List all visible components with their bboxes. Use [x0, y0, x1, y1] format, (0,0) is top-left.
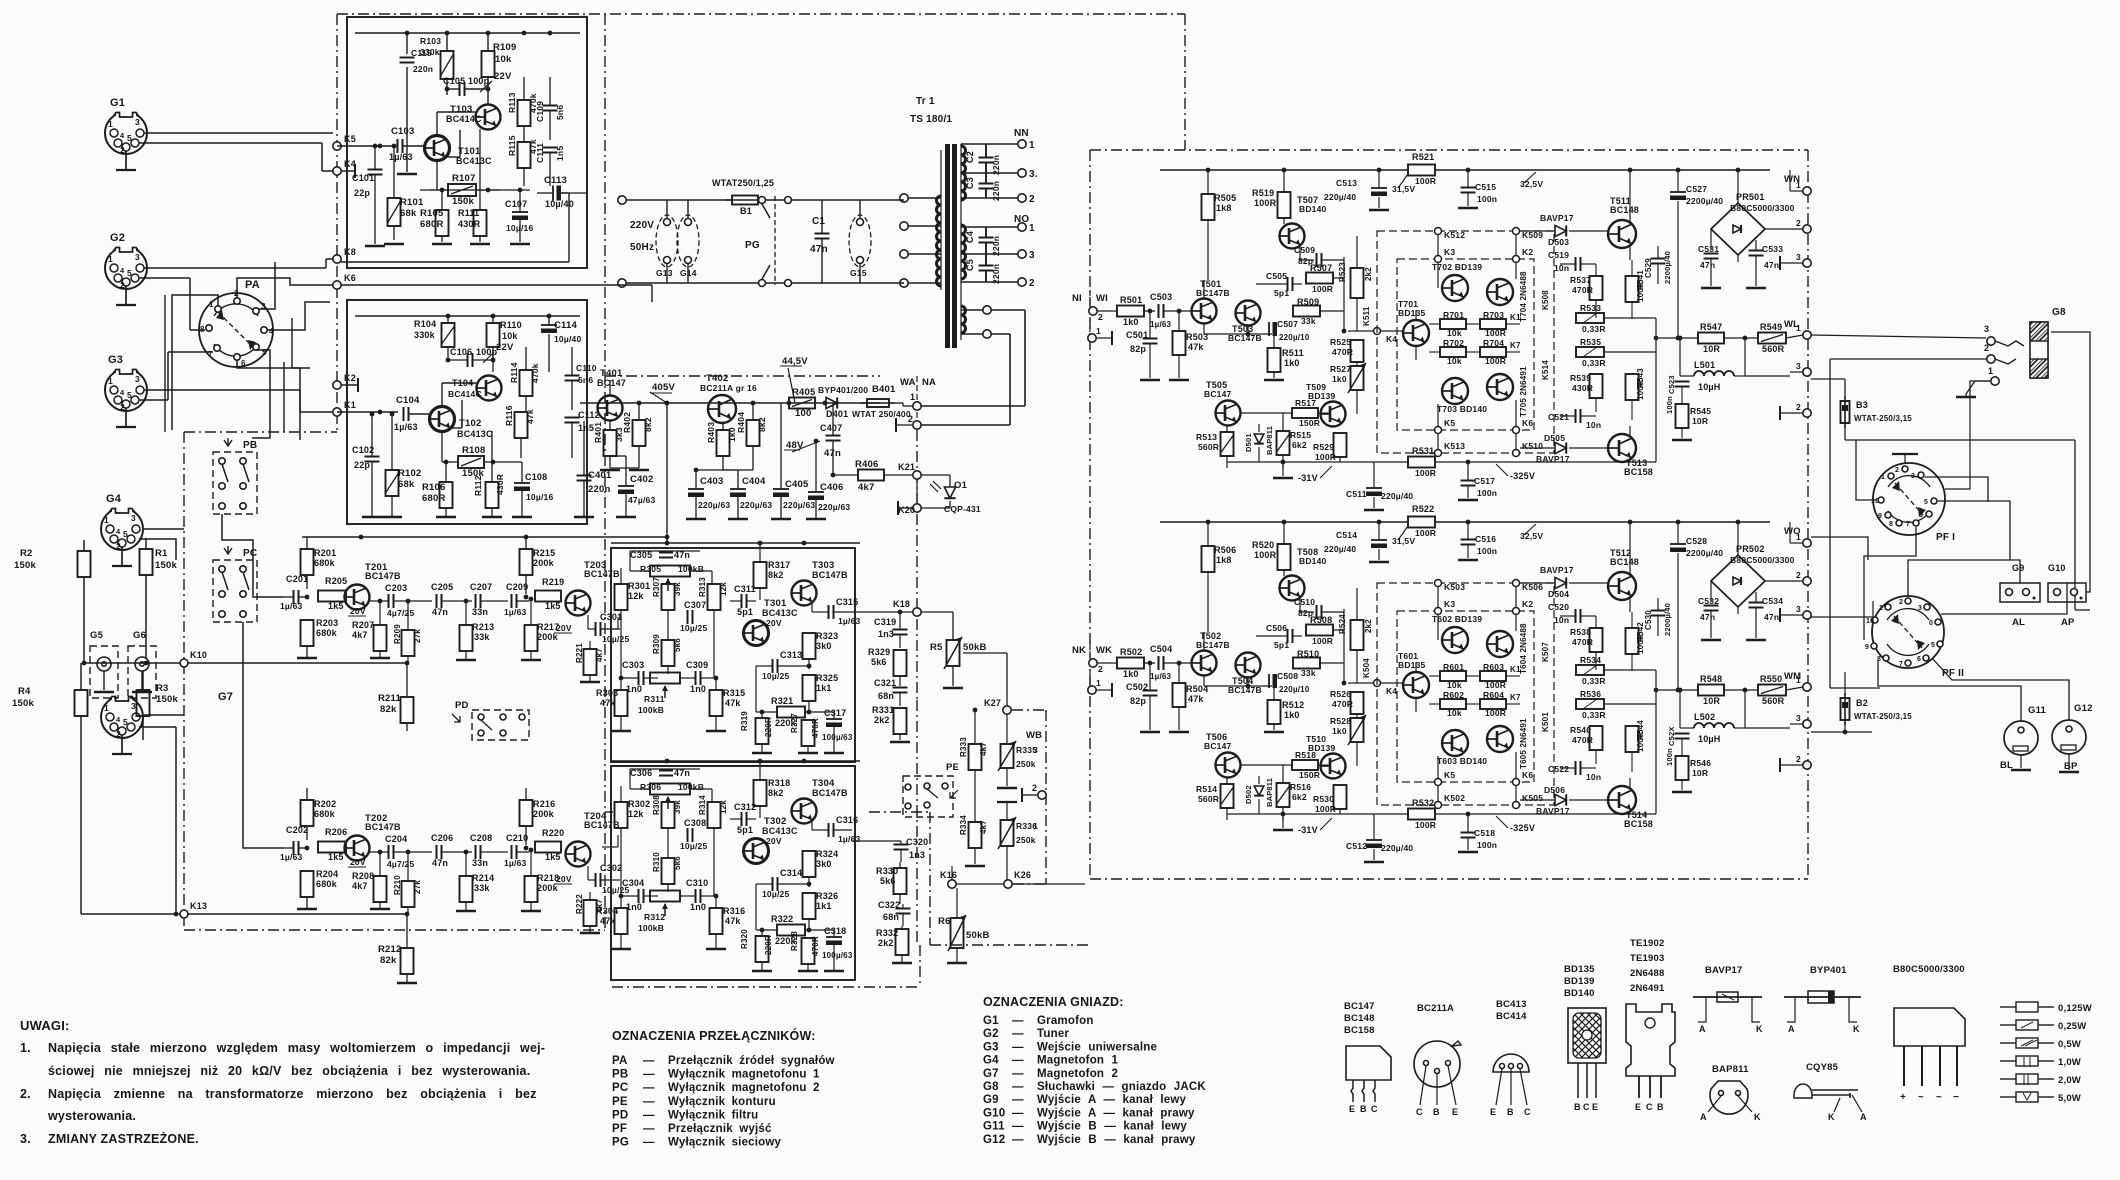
wire diff emitters: [1203, 676, 1205, 686]
capacitor C506 5p1: [1287, 629, 1289, 643]
svg-text:K503: K503: [1444, 582, 1465, 592]
wire K10 rail: [84, 662, 407, 664]
svg-text:G13: G13: [656, 268, 673, 278]
svg-text:5: 5: [127, 390, 132, 400]
svg-text:82p: 82p: [1130, 344, 1146, 354]
svg-text:G12: G12: [2074, 703, 2093, 714]
resistor R314: [708, 802, 721, 828]
wire top rail: [1160, 169, 1408, 171]
resistor R505 1k8: [1207, 170, 1209, 194]
svg-text:—: —: [1012, 1068, 1024, 1080]
svg-text:22p: 22p: [354, 188, 370, 198]
svg-text:NI: NI: [1072, 293, 1082, 304]
resistor R539 430R: [1590, 374, 1603, 398]
svg-text:K4: K4: [1386, 686, 1397, 696]
wire PA3 to K8 line: [259, 262, 275, 309]
wire T101 out to K8: [561, 192, 569, 194]
resistor R526 470R: [1351, 692, 1364, 714]
capacitor C319 1n3: [893, 629, 908, 631]
node K502: [1435, 802, 1442, 809]
svg-text:200k: 200k: [537, 632, 559, 642]
resistor R204: [301, 871, 314, 897]
svg-text:10k: 10k: [1447, 328, 1462, 338]
node jack contact 2: [1987, 355, 1995, 363]
svg-text:3: 3: [1796, 604, 1801, 614]
node PFII pin 3: [1924, 604, 1930, 610]
resistor R604 100R: [1480, 699, 1506, 709]
svg-text:A: A: [1699, 1024, 1706, 1034]
svg-text:BC147: BC147: [597, 378, 626, 388]
svg-text:1µ/63: 1µ/63: [838, 834, 861, 844]
resistor R537 470R: [1590, 276, 1603, 300]
svg-text:50Hz: 50Hz: [630, 242, 654, 253]
svg-text:B: B: [1433, 1107, 1440, 1117]
capacitor C52X 100n: [1681, 690, 1683, 732]
svg-text:C201: C201: [286, 574, 308, 584]
svg-text:WTAT250/1,25: WTAT250/1,25: [712, 178, 774, 188]
svg-text:R404: R404: [736, 412, 746, 433]
svg-text:C106: C106: [450, 347, 472, 357]
capacitor C527 2200µ/40: [1677, 170, 1679, 192]
svg-text:R508: R508: [1310, 615, 1332, 625]
resistor R112 430R: [486, 482, 499, 508]
svg-text:2: 2: [1796, 402, 1801, 412]
resistor R511 1k0: [1273, 336, 1275, 348]
svg-text:C406: C406: [820, 482, 844, 493]
svg-text:G12: G12: [983, 1134, 1005, 1146]
svg-text:4: 4: [269, 327, 274, 336]
svg-text:—: —: [643, 1055, 655, 1067]
svg-text:27k: 27k: [413, 880, 422, 894]
node PFII pin 6: [1923, 655, 1929, 661]
svg-text:R305: R305: [640, 564, 661, 574]
node PFII pin 7: [1905, 660, 1911, 666]
svg-text:100n: 100n: [1665, 748, 1674, 766]
node K13: [180, 910, 188, 918]
svg-text:31,5V: 31,5V: [1392, 536, 1415, 546]
svg-text:10µ/16: 10µ/16: [526, 492, 553, 502]
node PFII pin 2: [1905, 598, 1911, 604]
svg-text:C319: C319: [874, 617, 896, 627]
svg-text:R201: R201: [314, 548, 336, 558]
svg-text:0,125W: 0,125W: [2058, 1003, 2092, 1014]
svg-text:E: E: [1349, 1104, 1355, 1114]
svg-text:D503: D503: [1548, 237, 1569, 247]
box K-matrix inner: [1397, 611, 1534, 782]
transistor T703 BD140: [1442, 378, 1468, 404]
svg-text:1µ/63: 1µ/63: [389, 152, 413, 162]
svg-text:B80C5000/3300: B80C5000/3300: [1730, 555, 1795, 565]
svg-text:PG: PG: [745, 240, 760, 251]
svg-text:3: 3: [1796, 713, 1801, 723]
svg-text:R533: R533: [1580, 303, 1601, 313]
node PA pin 3: [253, 308, 259, 314]
svg-text:PB: PB: [243, 440, 257, 451]
svg-text:G14: G14: [680, 268, 697, 278]
svg-text:R103: R103: [420, 36, 441, 46]
svg-text:-31V: -31V: [1298, 825, 1318, 835]
svg-text:2: 2: [1029, 194, 1035, 205]
svg-text:K4: K4: [1386, 334, 1397, 344]
svg-text:R4: R4: [18, 686, 31, 697]
svg-text:R324: R324: [816, 849, 838, 859]
svg-text:R116: R116: [504, 405, 514, 426]
svg-text:6: 6: [1917, 656, 1921, 663]
svg-text:50kB: 50kB: [966, 930, 990, 941]
node transformer primary tap: [900, 194, 908, 202]
transistor T704 2N6488: [1487, 279, 1513, 305]
svg-text:R309: R309: [652, 634, 661, 654]
node PA pin 1: [215, 306, 221, 312]
svg-text:K13: K13: [190, 901, 207, 911]
svg-text:G4: G4: [106, 493, 122, 505]
transistor T402 BC211A: [708, 395, 736, 423]
svg-text:B: B: [1574, 1102, 1581, 1112]
svg-text:-31V: -31V: [1298, 473, 1318, 483]
capacitor C505 5p1: [1287, 277, 1289, 291]
resistor R217: [525, 625, 538, 651]
svg-text:0,25W: 0,25W: [2058, 1021, 2086, 1032]
capacitor C313: [772, 659, 774, 673]
svg-text:7: 7: [1899, 661, 1903, 668]
potentiometer R306: [650, 784, 690, 795]
svg-text:BD140: BD140: [1299, 204, 1327, 214]
svg-text:C309: C309: [686, 660, 708, 670]
capacitor C514 220µ/40: [1378, 522, 1380, 540]
resistor R547 10R: [1698, 333, 1724, 344]
resistor R531 100R: [1408, 457, 1435, 468]
svg-text:150k: 150k: [14, 560, 36, 571]
svg-text:220V: 220V: [630, 220, 654, 231]
svg-text:R509: R509: [1297, 297, 1319, 307]
capacitor C402 47µ/63: [618, 485, 634, 487]
svg-text:1: 1: [104, 703, 109, 713]
capacitor C206: [436, 845, 438, 859]
svg-text:R329: R329: [868, 647, 890, 657]
svg-text:3: 3: [135, 252, 140, 262]
resistor R703 100R: [1480, 319, 1506, 329]
capacitor C406 220µ/63: [808, 491, 824, 493]
svg-text:33k: 33k: [474, 883, 490, 893]
svg-text:2: 2: [120, 402, 125, 412]
svg-text:BAVP17: BAVP17: [1540, 213, 1574, 223]
svg-text:R213: R213: [472, 622, 494, 632]
svg-text:100R: 100R: [1636, 732, 1645, 752]
ground jack: [1965, 394, 1967, 396]
svg-text:33n: 33n: [472, 607, 488, 617]
capacitor C534 47n: [1755, 592, 1757, 602]
node K1: [333, 408, 341, 416]
svg-text:2: 2: [1098, 312, 1103, 322]
svg-text:G11: G11: [983, 1121, 1005, 1133]
svg-text:100R: 100R: [1415, 468, 1436, 478]
svg-text:31,5V: 31,5V: [1392, 184, 1415, 194]
node K509: [1513, 228, 1520, 235]
svg-text:C527: C527: [1686, 184, 1707, 194]
wire T101 base: [337, 145, 393, 147]
transistor T303: [792, 581, 817, 606]
svg-text:R308: R308: [652, 795, 661, 815]
wire T701 c-e: [1415, 662, 1417, 672]
svg-text:82k: 82k: [380, 704, 397, 715]
svg-text:3: 3: [1918, 605, 1922, 612]
svg-text:100p: 100p: [468, 76, 490, 86]
svg-text:5p1: 5p1: [737, 825, 753, 835]
svg-text:0,5W: 0,5W: [2058, 1039, 2081, 1050]
svg-text:C515: C515: [1475, 182, 1496, 192]
svg-text:C307: C307: [684, 600, 706, 610]
svg-text:R601: R601: [1443, 662, 1464, 672]
resistor R201: [301, 549, 314, 575]
svg-text:2N6488: 2N6488: [1630, 968, 1664, 979]
svg-text:K26: K26: [1014, 870, 1031, 880]
node PFII pin 10: [1872, 617, 1878, 623]
resistor R215: [520, 549, 533, 575]
svg-text:150R: 150R: [1299, 418, 1320, 428]
svg-text:20V: 20V: [350, 606, 366, 616]
wire WM to B2: [1811, 695, 1845, 697]
node mains terminal L: [618, 196, 626, 204]
svg-text:B401: B401: [872, 384, 896, 395]
svg-text:G6: G6: [133, 630, 146, 641]
svg-text:R206: R206: [325, 827, 347, 837]
capacitor C318: [826, 936, 842, 938]
svg-text:C534: C534: [1762, 596, 1783, 606]
ground C115: [397, 173, 417, 176]
capacitor C301: [595, 622, 597, 636]
svg-text:Gramofon: Gramofon: [1037, 1015, 1094, 1027]
capacitor C112 1n5: [565, 417, 580, 419]
svg-text:—: —: [643, 1109, 655, 1121]
resistor R324: [803, 851, 816, 877]
svg-text:C518: C518: [1474, 828, 1495, 838]
transistor T513 BC158: [1608, 434, 1636, 462]
resistor R214: [460, 876, 473, 902]
connector G4: [101, 505, 143, 566]
capacitor C105 100p: [459, 82, 461, 96]
svg-text:C108: C108: [525, 472, 547, 482]
svg-text:150k: 150k: [12, 698, 34, 709]
svg-text:WA: WA: [900, 377, 916, 388]
diode D505 BAVP17: [1520, 447, 1554, 449]
transformer primary winding: [937, 196, 942, 286]
svg-text:R521: R521: [1412, 152, 1434, 162]
resistor R211 82k: [401, 697, 414, 723]
svg-text:R546: R546: [1690, 758, 1711, 768]
resistor R333 4k7: [974, 710, 976, 744]
node terminal 3: [1803, 368, 1811, 376]
svg-text:R320: R320: [740, 929, 749, 949]
wire dash-dot border power amp block: [1090, 149, 1808, 151]
svg-text:470R: 470R: [811, 936, 820, 956]
svg-text:1µ/63: 1µ/63: [838, 616, 861, 626]
capacitor C320 1n3: [894, 844, 909, 846]
svg-text:5: 5: [1931, 642, 1935, 649]
svg-text:220µ/63: 220µ/63: [698, 500, 730, 510]
svg-text:R702: R702: [1443, 338, 1464, 348]
resistor R216: [520, 800, 533, 826]
resistor R522 100R: [1408, 517, 1435, 528]
svg-text:K505: K505: [1522, 793, 1543, 803]
capacitor C515 100n: [1467, 170, 1469, 187]
svg-text:220n: 220n: [991, 155, 1001, 175]
wire jack 2 line: [1830, 358, 1987, 360]
svg-text:C522: C522: [1548, 764, 1569, 774]
svg-text:R525: R525: [1330, 337, 1351, 347]
svg-text:T603 BD140: T603 BD140: [1437, 756, 1487, 766]
wire PFI to contacts: [1945, 381, 1991, 489]
svg-text:C52X: C52X: [1667, 726, 1676, 746]
svg-text:BC413C: BC413C: [457, 429, 493, 439]
svg-text:430R: 430R: [458, 219, 481, 229]
wire PFI routes: [1938, 501, 2010, 560]
svg-text:5p1: 5p1: [1274, 640, 1289, 650]
svg-text:3.: 3.: [1029, 169, 1038, 180]
svg-text:68k: 68k: [398, 479, 415, 490]
svg-text:4µ7/25: 4µ7/25: [387, 859, 414, 869]
svg-text:20V: 20V: [556, 623, 572, 633]
svg-text:2: 2: [116, 729, 121, 739]
transistor T514 BC158: [1608, 786, 1636, 814]
node terminal 2 center: [1038, 791, 1046, 799]
wire rail to tone boxes: [605, 536, 667, 538]
capacitor C101 22p: [368, 169, 383, 171]
svg-text:ściowej nie mniejszej niż 20 k: ściowej nie mniejszej niż 20 kΩ/V bez ob…: [48, 1064, 530, 1078]
resistor R549 560R: [1758, 333, 1786, 344]
svg-text:3: 3: [1796, 252, 1801, 262]
switch PA rotary: [199, 293, 273, 367]
capacitor C114 10µ/40: [541, 324, 557, 326]
svg-text:PB: PB: [612, 1069, 628, 1081]
node K18: [913, 608, 921, 616]
svg-text:G2: G2: [110, 232, 125, 244]
svg-text:4k7: 4k7: [595, 648, 604, 662]
node WA terminal 1: [913, 402, 921, 410]
transistor T103 BC414C: [476, 105, 501, 130]
svg-text:100R: 100R: [1415, 528, 1436, 538]
svg-text:G5: G5: [90, 630, 104, 641]
svg-text:BP: BP: [2064, 761, 2078, 772]
svg-text:33k: 33k: [1301, 668, 1316, 678]
resistor R322: [777, 925, 805, 936]
svg-text:2: 2: [1029, 278, 1035, 289]
svg-text:BYP401: BYP401: [1810, 965, 1847, 976]
resistor R108 150k: [458, 456, 484, 468]
svg-text:C532: C532: [1698, 596, 1719, 606]
svg-text:R215: R215: [533, 548, 555, 558]
svg-text:BC158: BC158: [1624, 467, 1653, 477]
svg-text:100R: 100R: [1254, 550, 1277, 560]
node K4: [333, 167, 341, 175]
wire T102 emitter: [441, 432, 443, 462]
capacitor C316: [828, 823, 830, 837]
svg-text:12k: 12k: [628, 591, 644, 601]
capacitor C204: [388, 845, 390, 859]
node PFII pin 8: [1883, 655, 1889, 661]
svg-text:C514: C514: [1336, 530, 1357, 540]
wire PFII to G12: [1932, 658, 2069, 720]
svg-text:C202: C202: [286, 825, 308, 835]
svg-text:C316: C316: [836, 815, 858, 825]
svg-text:PE: PE: [612, 1096, 628, 1108]
wire G7 out: [144, 714, 184, 716]
svg-text:R550: R550: [1760, 674, 1782, 684]
resistor R538 470R: [1590, 628, 1603, 652]
node transformer primary tap: [900, 279, 908, 287]
svg-text:T602 BD139: T602 BD139: [1432, 614, 1482, 624]
resistor R510 33k: [1293, 658, 1320, 669]
svg-text:10k: 10k: [1447, 708, 1462, 718]
svg-text:47n: 47n: [810, 244, 828, 255]
svg-text:5k6: 5k6: [880, 876, 896, 886]
capacitor C208: [475, 845, 477, 859]
svg-text:PF I: PF I: [1936, 532, 1955, 543]
wire fb: [629, 551, 631, 571]
node K5: [1435, 779, 1442, 786]
svg-text:R513: R513: [1196, 432, 1217, 442]
svg-text:5: 5: [123, 529, 128, 539]
capacitor C201: [293, 590, 295, 604]
svg-text:1: 1: [1796, 532, 1801, 542]
resistor R331 2k2: [894, 708, 907, 734]
svg-text:R522: R522: [1412, 504, 1434, 514]
node jack contact 3: [1987, 337, 1995, 345]
svg-text:7: 7: [208, 350, 213, 359]
node K511: [1374, 328, 1381, 335]
svg-text:1: 1: [1796, 180, 1801, 190]
resistor R213: [460, 625, 473, 651]
svg-text:1: 1: [108, 376, 113, 386]
svg-text:8k2: 8k2: [643, 417, 653, 432]
resistor R308: [662, 802, 675, 828]
node K5: [333, 142, 341, 150]
svg-text:20V: 20V: [350, 857, 366, 867]
svg-text:220n: 220n: [413, 64, 433, 74]
svg-text:47n: 47n: [1700, 612, 1715, 622]
capacitor C403 220µ/63: [688, 488, 704, 490]
svg-text:R334: R334: [959, 815, 968, 835]
resistor R404 8k2: [747, 420, 760, 446]
resistor R704 100R: [1480, 347, 1506, 357]
resistor R205: [318, 591, 346, 602]
svg-text:1: 1: [1029, 223, 1035, 234]
capacitor C210: [511, 845, 513, 859]
transistor T605 2N6491: [1487, 726, 1513, 752]
svg-text:1n5: 1n5: [555, 146, 565, 161]
svg-text:K: K: [1853, 1024, 1860, 1034]
transistor T201: [345, 585, 370, 610]
resistor R221: [584, 649, 597, 675]
svg-text:220n: 220n: [991, 236, 1001, 256]
svg-text:L501: L501: [1694, 360, 1715, 370]
svg-text:R547: R547: [1700, 322, 1722, 332]
svg-text:K7: K7: [1510, 341, 1521, 350]
svg-text:PC: PC: [243, 548, 257, 559]
svg-text:BC414C: BC414C: [448, 389, 482, 399]
svg-text:33k: 33k: [1301, 316, 1316, 326]
svg-text:R6: R6: [938, 916, 951, 927]
svg-text:100kB: 100kB: [638, 923, 664, 933]
svg-text:27k: 27k: [413, 629, 422, 643]
capacitor C322 68n: [896, 908, 911, 910]
transistor T512 BC148: [1608, 572, 1636, 600]
transistor T202: [345, 836, 370, 861]
svg-text:R310: R310: [652, 852, 661, 872]
svg-text:10µ/25: 10µ/25: [680, 623, 707, 633]
svg-text:C209: C209: [506, 582, 528, 592]
svg-text:4k7: 4k7: [352, 881, 368, 891]
svg-text:BC147B: BC147B: [1196, 640, 1230, 650]
